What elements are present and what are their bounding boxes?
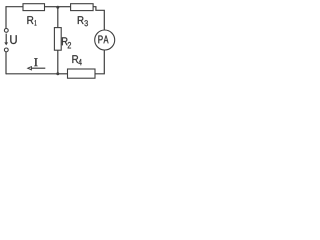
- wire bottom: [6, 73, 58, 75]
- label R4 subscript 4: [79, 59, 82, 65]
- resistor R2: [54, 28, 61, 51]
- ammeter label P: [98, 36, 102, 44]
- terminal circle bottom: [4, 48, 8, 52]
- label R4: [72, 55, 78, 63]
- wire left rail upper: [5, 6, 7, 28]
- label U: [10, 35, 16, 44]
- wire node A to R3: [58, 6, 71, 8]
- terminal circle top: [4, 29, 8, 33]
- wire PA to bottom-right corner: [95, 50, 104, 74]
- resistor R1: [23, 4, 45, 11]
- ammeter PA circle: [95, 30, 115, 50]
- label R1: [27, 16, 33, 24]
- label I: [34, 58, 37, 66]
- label R3: [78, 16, 84, 24]
- node A junction dot: [56, 6, 59, 9]
- wire R1 to node A: [45, 6, 58, 8]
- voltage arrow U head: [4, 42, 8, 45]
- wire node B to R4: [58, 73, 68, 75]
- wire R2 to node B: [57, 50, 59, 74]
- wire mid rail node A to R2: [57, 7, 59, 28]
- current arrow I shaft: [31, 67, 46, 69]
- ammeter label A: [104, 36, 109, 44]
- wire R3 to right rail with step: [93, 7, 104, 31]
- label R2 subscript 2: [68, 42, 71, 48]
- label R3 subscript 3: [84, 20, 88, 26]
- wire left rail lower: [5, 52, 7, 74]
- label R1 subscript 1: [35, 20, 37, 25]
- wire top-left horizontal: [6, 6, 23, 8]
- resistor R3: [71, 4, 94, 11]
- label R2: [62, 37, 68, 45]
- resistor R4: [68, 69, 96, 78]
- voltage arrow U shaft: [5, 34, 7, 43]
- node B junction dot: [56, 72, 59, 75]
- current arrow I head: [28, 67, 32, 70]
